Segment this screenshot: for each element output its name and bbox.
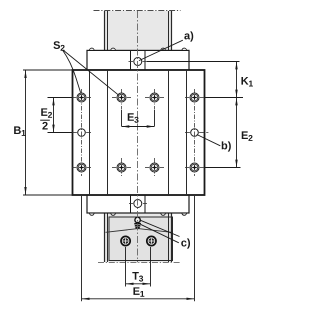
screw S2 B3 bbox=[112, 163, 131, 172]
bottom end plate bbox=[87, 195, 189, 213]
unit chevron line bbox=[106, 229, 172, 233]
E2 dimension line right bbox=[236, 98, 238, 167]
E1 extension line right bbox=[194, 196, 196, 301]
label E1 bbox=[133, 287, 144, 296]
top end plate bbox=[87, 50, 189, 70]
top lube port box bbox=[130, 50, 132, 70]
screw S2 C3 bbox=[145, 163, 164, 172]
rail top left edge double line bbox=[104, 11, 106, 50]
unit mounting screw right bbox=[147, 236, 156, 245]
top plate screw bumps bbox=[90, 48, 95, 50]
hole column centerline A bbox=[81, 89, 83, 176]
K1 extension line bbox=[147, 61, 240, 63]
E2/2 extension line mid bbox=[48, 132, 73, 134]
T3 extension line left bbox=[125, 247, 127, 287]
hole column centerline B bbox=[121, 89, 123, 110]
block inner line left 2 bbox=[107, 70, 109, 195]
rail top right edge double line bbox=[168, 11, 170, 50]
E2/2 dimension line bbox=[53, 98, 55, 132]
leader b) to side hole bbox=[197, 135, 221, 146]
bottom lube port box bbox=[130, 195, 132, 213]
T3 extension line right bbox=[150, 247, 152, 287]
main vertical centerline bbox=[137, 11, 139, 262]
leader c) to nipple top bbox=[141, 220, 180, 236]
label a) bbox=[184, 31, 193, 41]
hole column centerline D bbox=[194, 89, 196, 176]
rail bottom left edge double line bbox=[104, 213, 106, 262]
label K1 bbox=[241, 77, 252, 86]
top lube port a) bbox=[129, 58, 148, 66]
E2/2 extension line row1 bbox=[48, 97, 73, 99]
rail bottom segment fill bbox=[105, 213, 172, 262]
side hole right b) bbox=[185, 129, 204, 137]
leader S2 to A1 bbox=[63, 50, 81, 93]
E1 dimension line bbox=[82, 298, 194, 300]
side hole outside centerline dashes bbox=[206, 132, 208, 134]
rail break centerline top bbox=[94, 10, 181, 12]
screw S2 A3 bbox=[72, 163, 91, 172]
label E2/2 fraction bbox=[41, 108, 52, 117]
label S2 bbox=[53, 41, 64, 51]
B1 extension line top bbox=[23, 69, 72, 71]
screw S2 A1 bbox=[72, 93, 91, 102]
lubrication unit body bbox=[109, 217, 173, 261]
block inner line right 1 bbox=[186, 70, 188, 195]
label c) bbox=[181, 238, 190, 248]
screw S2 D3 bbox=[185, 163, 204, 172]
screw S2 D1 bbox=[185, 93, 204, 102]
hole column centerline C bbox=[154, 89, 156, 110]
leader c) to nipple thread bbox=[141, 224, 179, 243]
B1 extension line bottom bbox=[23, 194, 72, 196]
block inner line left 1 bbox=[89, 70, 91, 195]
B1 dimension line bbox=[25, 70, 27, 194]
label E2 right bbox=[242, 131, 253, 140]
label T3 bbox=[132, 272, 143, 282]
screw S2 C1 bbox=[145, 93, 164, 102]
label E3 bbox=[128, 113, 139, 123]
row3 extension line right bbox=[205, 167, 241, 169]
rail break centerline bottom bbox=[98, 262, 180, 264]
carriage block outline bbox=[73, 70, 205, 195]
funnel lube nipple bbox=[134, 217, 141, 227]
leader a) to lube port bbox=[139, 40, 183, 60]
bottom lube port bbox=[129, 200, 147, 208]
bottom plate screw bumps bbox=[90, 213, 95, 215]
screw S2 B1 bbox=[112, 93, 131, 102]
row1 extension line right bbox=[205, 97, 243, 99]
E1 extension line left bbox=[81, 196, 83, 301]
label b) bbox=[222, 141, 231, 151]
T3 dimension line bbox=[126, 283, 150, 285]
label B1 bbox=[14, 126, 25, 135]
E3 dimension line bbox=[122, 126, 155, 128]
rail top segment fill bbox=[105, 11, 172, 51]
unit mounting screw left bbox=[121, 236, 130, 245]
leader S2 to B1 bbox=[63, 50, 119, 95]
rail bottom right edge double line bbox=[168, 213, 170, 262]
K1 dimension line bbox=[236, 62, 238, 97]
block inner line right 2 bbox=[168, 70, 170, 195]
side hole left bbox=[72, 129, 91, 137]
